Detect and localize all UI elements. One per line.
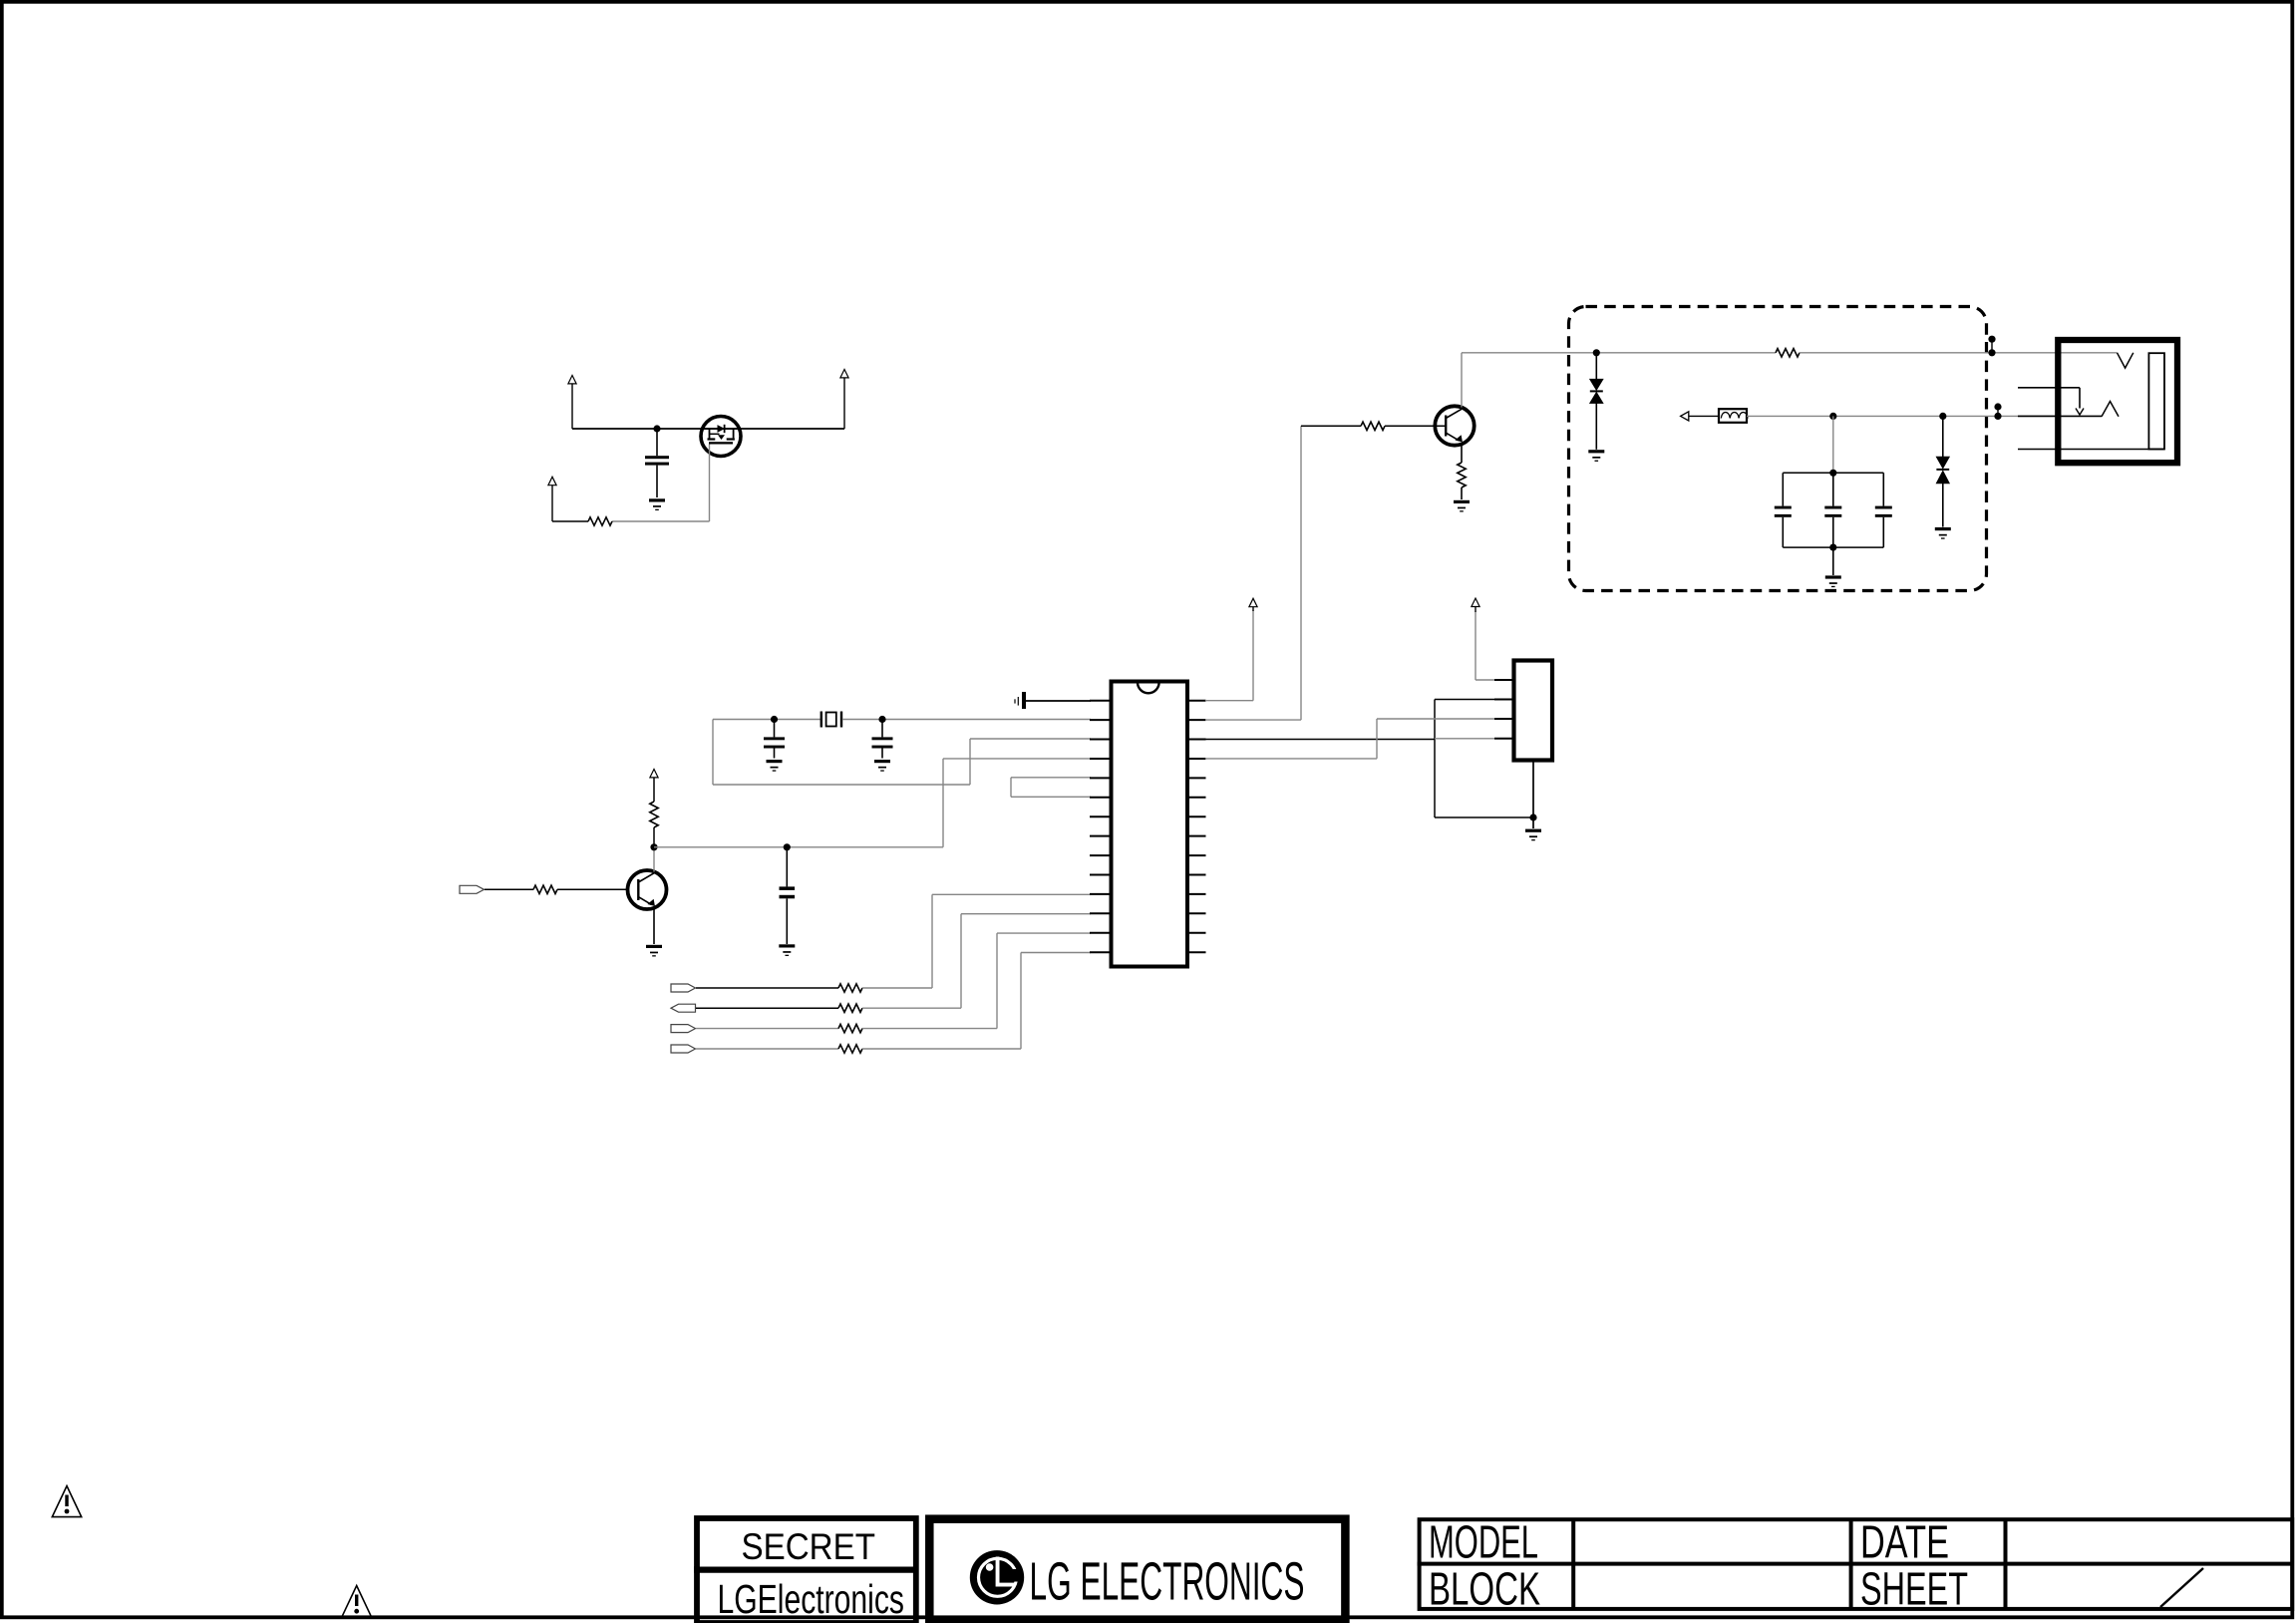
wire bbox=[842, 719, 1091, 721]
zener diode D1 bbox=[1590, 353, 1603, 450]
connector J1 inner bar bbox=[2148, 353, 2164, 449]
node B bbox=[771, 716, 778, 723]
wire bbox=[1300, 426, 1302, 720]
wire bbox=[1435, 699, 1494, 701]
wire bbox=[1205, 719, 1301, 721]
logo LG bbox=[970, 1550, 1024, 1604]
wire bbox=[1021, 952, 1091, 954]
wire bbox=[1376, 719, 1378, 759]
wire bbox=[970, 738, 1091, 740]
wire bbox=[696, 1028, 838, 1030]
capacitor C5 bbox=[1775, 473, 1792, 547]
capacitor C2 bbox=[764, 720, 785, 759]
node H bbox=[1829, 413, 1836, 420]
wire bbox=[1377, 718, 1494, 720]
wire bbox=[709, 445, 711, 522]
ground bbox=[1588, 450, 1604, 462]
wire bbox=[1020, 953, 1022, 1050]
text SHEET bbox=[1860, 1563, 1968, 1615]
ground bbox=[1525, 829, 1541, 841]
wire bbox=[1205, 700, 1253, 702]
node K bbox=[1829, 544, 1836, 551]
wire bbox=[1026, 700, 1091, 702]
wire bbox=[2018, 449, 2164, 451]
wire bbox=[654, 846, 943, 848]
resistor R1 bbox=[588, 517, 612, 525]
resistor RKEY2 bbox=[838, 1004, 862, 1012]
resistor RKEY4 bbox=[838, 1045, 862, 1053]
ground bbox=[1454, 500, 1470, 512]
zener diode D2 bbox=[1936, 416, 1949, 526]
IC U1 (DIP-28) bbox=[1112, 682, 1188, 967]
IC U2 pins bbox=[1494, 680, 1514, 739]
wire bbox=[1435, 738, 1494, 740]
wire bbox=[1783, 546, 1883, 548]
wire bbox=[862, 1028, 997, 1030]
wire bbox=[1461, 353, 1463, 408]
capacitor C4 bbox=[780, 847, 796, 944]
ground bbox=[767, 760, 783, 772]
wire bbox=[997, 932, 1091, 934]
ground bbox=[649, 498, 665, 510]
wire bbox=[1434, 700, 1436, 818]
wire bbox=[996, 933, 998, 1029]
title table bbox=[1418, 1519, 2293, 1609]
wire bbox=[696, 1048, 838, 1050]
wire bbox=[1385, 425, 1445, 427]
ground bbox=[1935, 527, 1951, 539]
wire bbox=[653, 847, 655, 872]
resistor R5 bbox=[1458, 463, 1466, 487]
node D bbox=[650, 843, 657, 850]
wire bbox=[1010, 778, 1012, 798]
wire bbox=[1461, 487, 1463, 499]
wire bbox=[1800, 352, 2118, 354]
svg-text:DATE: DATE bbox=[1860, 1516, 1949, 1568]
capacitor C1 bbox=[645, 429, 669, 497]
power arrow VCC6 bbox=[1472, 598, 1479, 612]
wire bbox=[653, 827, 655, 847]
resistor RKEY1 bbox=[838, 984, 862, 992]
resistor R3 bbox=[650, 802, 658, 827]
wire bbox=[1462, 352, 1776, 354]
transistor Q3 (NPN) bbox=[1435, 406, 1474, 445]
wire bbox=[696, 987, 838, 989]
resistor R2 bbox=[533, 885, 557, 893]
wire bbox=[1252, 610, 1254, 701]
transistor Q1 (P-MOSFET) bbox=[701, 417, 741, 457]
wire bbox=[557, 888, 628, 890]
node J bbox=[1829, 470, 1836, 477]
text DATE bbox=[1860, 1516, 1949, 1568]
title box SECRET bbox=[694, 1518, 918, 1623]
wire arrow bbox=[1681, 412, 1689, 421]
text LGElectronics bbox=[718, 1576, 905, 1622]
IC U2 bbox=[1514, 661, 1553, 761]
ferrite bead FB1 bbox=[1719, 409, 1748, 423]
power arrow VCC1 bbox=[568, 376, 576, 430]
node E bbox=[784, 843, 791, 850]
wire bbox=[1205, 739, 1435, 741]
wire bbox=[931, 894, 933, 988]
svg-text:SHEET: SHEET bbox=[1860, 1563, 1968, 1615]
node C bbox=[878, 716, 885, 723]
wire bbox=[1832, 547, 1834, 575]
wire bbox=[932, 893, 1091, 895]
title box LG bbox=[929, 1519, 1345, 1623]
svg-text:MODEL: MODEL bbox=[1429, 1516, 1538, 1568]
resistor RKEY3 bbox=[838, 1024, 862, 1032]
wire bbox=[1435, 816, 1533, 818]
capacitor C7 bbox=[1875, 473, 1892, 547]
connector J1 bbox=[2058, 340, 2177, 463]
resistor R6 bbox=[1776, 349, 1800, 357]
wire bbox=[1747, 415, 2055, 417]
wire bbox=[862, 987, 932, 989]
node M bbox=[1994, 403, 2001, 420]
wire bbox=[1832, 416, 1834, 473]
connector P1 bbox=[1015, 692, 1026, 709]
connector flag KEY2 bbox=[671, 1004, 696, 1012]
wire bbox=[1461, 444, 1463, 463]
svg-text:LGElectronics: LGElectronics bbox=[718, 1576, 905, 1622]
wire bbox=[1011, 796, 1091, 798]
node L bbox=[1988, 336, 1995, 357]
wire bbox=[943, 758, 1091, 760]
text LG ELECTRONICS bbox=[1030, 1552, 1305, 1612]
wire bbox=[960, 914, 962, 1009]
text MODEL bbox=[1429, 1516, 1538, 1568]
sheet slash bbox=[2160, 1568, 2203, 1607]
node I bbox=[1939, 413, 1946, 420]
wire bbox=[1783, 472, 1883, 474]
wire bbox=[961, 913, 1091, 915]
svg-text:SECRET: SECRET bbox=[742, 1525, 876, 1567]
connector J1 contact caret bbox=[2102, 402, 2119, 417]
wire bbox=[552, 520, 588, 522]
connector flag KEY4 bbox=[671, 1045, 696, 1053]
wire bbox=[1301, 425, 1361, 427]
wire bbox=[862, 1007, 961, 1009]
wire bbox=[2018, 387, 2080, 389]
warning triangle 2 bbox=[342, 1586, 371, 1617]
ground bbox=[646, 945, 662, 957]
text SECRET bbox=[742, 1525, 876, 1567]
crystal X1 bbox=[821, 712, 841, 728]
power arrow VCC5 bbox=[1249, 598, 1257, 611]
svg-text:BLOCK: BLOCK bbox=[1429, 1563, 1540, 1615]
ground bbox=[874, 760, 890, 772]
power arrow VCC4 bbox=[650, 770, 658, 779]
wire bbox=[653, 908, 655, 945]
wire bbox=[1476, 679, 1494, 681]
node F bbox=[1529, 813, 1536, 820]
wire arrow bbox=[2076, 388, 2084, 415]
connector flag IN1 bbox=[460, 885, 485, 893]
wire bbox=[942, 759, 944, 847]
wire bbox=[862, 1048, 1021, 1050]
connector flag KEY1 bbox=[671, 984, 696, 992]
node G bbox=[1593, 349, 1600, 356]
capacitor C3 bbox=[872, 720, 893, 759]
wire bbox=[1532, 761, 1534, 829]
connector flag KEY3 bbox=[671, 1025, 696, 1033]
text BLOCK bbox=[1429, 1563, 1540, 1615]
svg-text:LG ELECTRONICS: LG ELECTRONICS bbox=[1030, 1552, 1305, 1612]
wire bbox=[653, 778, 655, 802]
IC U1 pins bbox=[1090, 701, 1206, 953]
node A bbox=[653, 425, 660, 432]
wire bbox=[572, 428, 844, 430]
wire bbox=[969, 739, 971, 785]
power arrow VCC3 bbox=[548, 477, 556, 521]
resistor R4 bbox=[1361, 422, 1385, 430]
dashed box (EMI filter) bbox=[1569, 307, 1987, 591]
wire bbox=[696, 1007, 838, 1009]
wire bbox=[612, 520, 710, 522]
transistor Q2 (NPN) bbox=[628, 870, 667, 909]
wire bbox=[1689, 415, 1719, 417]
warning triangle 1 bbox=[52, 1486, 81, 1517]
wire bbox=[1011, 777, 1091, 779]
capacitor C6 bbox=[1824, 473, 1841, 547]
connector J1 contact V bbox=[2118, 353, 2133, 368]
wire bbox=[713, 719, 820, 721]
wire bbox=[2018, 415, 2102, 417]
wire bbox=[712, 720, 714, 786]
wire bbox=[485, 888, 533, 890]
ground bbox=[779, 944, 795, 956]
wire bbox=[1205, 758, 1377, 760]
wire bbox=[713, 784, 970, 786]
ground bbox=[1825, 575, 1841, 587]
wire bbox=[1475, 612, 1476, 681]
power arrow VCC2 bbox=[840, 370, 848, 430]
